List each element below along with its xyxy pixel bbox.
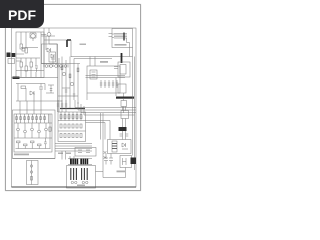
capacitor C9 — [61, 100, 64, 112]
opto-coupler U2 — [49, 52, 56, 62]
diode D15 — [60, 65, 63, 68]
capacitor C21 — [126, 134, 129, 136]
resistor R20 — [80, 115, 82, 119]
diode D11 — [30, 165, 32, 167]
resistor R31 — [36, 117, 38, 120]
opto-coupler U2 internals — [51, 54, 55, 59]
transistor Q5 — [38, 130, 41, 133]
diode D6 — [64, 124, 66, 128]
resistor R19 — [76, 115, 78, 119]
wire — [62, 151, 74, 160]
wire — [86, 76, 126, 78]
regulator U3 — [118, 84, 126, 93]
resistor R29 — [69, 74, 71, 78]
power jack block — [131, 158, 137, 165]
net label AC-IN — [80, 44, 87, 46]
capacitor C14 — [104, 156, 107, 159]
capacitor C17 — [65, 90, 68, 92]
capacitor C20 — [120, 134, 123, 136]
resistor R23 — [68, 134, 70, 138]
net label SW — [117, 171, 126, 173]
connector CN1 pins — [71, 168, 77, 180]
capacitor C11 — [44, 138, 47, 149]
resistor R3 — [20, 62, 23, 67]
wire — [114, 67, 118, 69]
pin header rails — [68, 159, 92, 165]
capacitor C12 body — [112, 141, 117, 152]
transistor Q7 — [70, 82, 73, 85]
wire — [12, 78, 63, 102]
aux tall box — [27, 161, 39, 185]
resistor R8 — [20, 117, 22, 120]
switch box — [120, 156, 132, 168]
wire — [87, 43, 130, 101]
divider wire — [71, 57, 133, 59]
right rail wire — [133, 48, 135, 171]
relay box — [75, 148, 96, 157]
wire — [96, 171, 104, 173]
net label BUS — [58, 153, 63, 155]
resistor R25 — [76, 134, 78, 138]
net label CN — [77, 185, 85, 187]
transistor Q1 — [30, 33, 36, 41]
wire — [41, 40, 80, 68]
amplifier box — [14, 114, 52, 152]
wire — [20, 101, 41, 114]
diode D2 — [45, 65, 48, 68]
resistor R16 — [64, 115, 66, 119]
connector terminal circles — [71, 181, 88, 183]
bus wire 2 — [78, 102, 136, 110]
wire — [18, 123, 46, 138]
controller U4 — [90, 70, 97, 79]
protection outer box — [13, 110, 56, 159]
transformer input stubs — [109, 34, 113, 37]
wire — [13, 158, 56, 160]
connector CN2 pins — [82, 168, 88, 180]
bus wire 3 — [81, 104, 136, 113]
resistor R30 — [77, 68, 79, 72]
ground bus — [12, 186, 137, 188]
output connector box — [67, 166, 96, 189]
wire — [101, 113, 126, 178]
heatsink bar — [116, 97, 134, 99]
connector pin header block A — [70, 159, 78, 165]
schematic frame — [12, 28, 137, 187]
primary side block box — [16, 32, 44, 78]
thick feedback wire — [67, 40, 71, 47]
transistor Q6 — [62, 72, 65, 75]
resistor R32 — [40, 117, 42, 120]
capacitor C19 — [50, 89, 53, 91]
wire — [46, 85, 54, 93]
capacitor C15 — [104, 154, 108, 165]
capacitor C3 — [100, 80, 103, 88]
transformer T1 box — [112, 29, 133, 48]
resistor R27 — [31, 177, 33, 181]
thick ground segment — [60, 108, 85, 110]
transformer T1 label — [115, 44, 127, 46]
diode D3 — [55, 65, 58, 68]
resistor R35 — [22, 49, 25, 52]
rectifier inner box — [120, 65, 126, 75]
logic block box — [58, 112, 86, 142]
regulator U5 box — [121, 111, 129, 119]
resistor R11 — [32, 117, 34, 120]
signal bus wires — [55, 144, 92, 152]
transistor Q9 — [45, 128, 48, 131]
resistor R13 — [24, 144, 28, 146]
relay contacts — [78, 150, 90, 153]
capacitor C4 — [104, 80, 107, 88]
long rail wire — [57, 44, 59, 112]
controller U4 pins — [92, 72, 96, 77]
capacitor C2 — [39, 84, 43, 96]
wire — [21, 32, 55, 50]
resistor R9 — [24, 117, 26, 120]
capacitor C6 — [112, 80, 115, 88]
wire — [21, 67, 36, 77]
capacitor C8 — [57, 100, 60, 112]
resistor R12 — [17, 141, 21, 143]
capacitor C7 — [116, 80, 119, 88]
resistor R18 — [72, 115, 74, 119]
transistor Q2 — [17, 128, 20, 131]
transistor Q3 — [24, 130, 27, 133]
diode D10 — [80, 124, 82, 128]
resistor R15 — [60, 115, 62, 119]
transformer T1 tap wire — [127, 38, 130, 43]
wire — [18, 143, 39, 149]
wire — [58, 112, 86, 131]
wire — [16, 32, 44, 78]
net label BUS2 — [66, 153, 71, 155]
thick rectifier wire — [121, 53, 123, 63]
wire — [16, 54, 24, 61]
wire — [58, 88, 78, 96]
resistor R24 — [72, 134, 74, 138]
wire — [86, 121, 111, 123]
diode D13 — [122, 143, 126, 147]
diode D1 — [30, 91, 34, 95]
resistor R1 — [20, 44, 23, 49]
transistor Q8 — [47, 33, 51, 37]
resistor R4 — [25, 66, 28, 71]
diode D7 — [68, 124, 70, 128]
thermistor TH1 — [119, 127, 127, 131]
diode D16 — [47, 48, 51, 52]
bus wire 4 — [84, 106, 135, 115]
diode D4 — [64, 65, 67, 68]
transistor Q4 — [31, 128, 34, 131]
secondary block box — [87, 66, 120, 93]
resistor R22 — [64, 134, 66, 138]
capacitor C16 — [109, 154, 113, 165]
driver stage wires — [62, 57, 78, 109]
transformer T1 core — [123, 33, 125, 41]
wire — [123, 107, 126, 140]
transformer T1 windings — [112, 34, 127, 39]
rectifier box — [118, 62, 130, 77]
resistor R28 — [61, 66, 63, 70]
resistor R2 — [25, 48, 28, 53]
resistor R26 — [80, 134, 82, 138]
resistor R36 — [49, 127, 51, 131]
wire — [44, 28, 67, 67]
switch contacts — [123, 158, 127, 165]
capacitor C5 — [108, 80, 111, 88]
bus wire 1 — [75, 100, 136, 108]
capacitor C1 — [35, 66, 38, 72]
fuse F1 — [13, 77, 20, 80]
diode D12 — [30, 171, 32, 173]
resistor R33 — [44, 117, 46, 120]
wire — [49, 114, 51, 149]
resistor R6 — [21, 86, 26, 89]
capacitor C13 — [104, 151, 107, 154]
control sub-box — [42, 44, 58, 64]
amplifier internal wires — [14, 114, 52, 149]
resistor R7 — [16, 117, 17, 120]
diode D5 — [60, 124, 62, 128]
connector pin header block B — [80, 159, 88, 165]
wire — [41, 28, 58, 44]
diode D8 — [72, 124, 74, 128]
wire — [26, 88, 41, 101]
inductor L1 — [121, 101, 127, 107]
wire — [122, 148, 128, 150]
wire — [16, 58, 40, 66]
diode D9 — [76, 124, 78, 128]
diode D14 — [50, 65, 53, 68]
resistor R10 — [28, 117, 30, 120]
capacitor C18 — [73, 94, 76, 96]
connector J1 — [7, 53, 16, 58]
capacitor C12 stripes — [112, 144, 117, 149]
resistor R34 — [38, 144, 42, 146]
wire — [123, 93, 125, 113]
resistor R17 — [68, 115, 70, 119]
resistor R5 — [30, 62, 33, 67]
capacitor C10 — [65, 100, 68, 112]
resistor R14 — [31, 141, 35, 143]
connector J1 shell — [8, 59, 15, 64]
long rail wire 2 — [58, 58, 60, 112]
net label SECONDARY — [100, 61, 108, 63]
filter box — [108, 140, 132, 154]
aux chain wire — [31, 161, 33, 185]
net label AMP — [14, 154, 29, 156]
resistor R21 — [60, 134, 62, 138]
